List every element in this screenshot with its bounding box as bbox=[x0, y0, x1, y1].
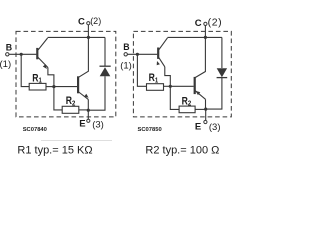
diode D1 (left, cathode up) bbox=[104, 37, 106, 66]
resistor R2 (right) bbox=[179, 106, 195, 113]
wire Q2 emitter to E node (right) bbox=[205, 99, 207, 109]
wire top rail (right) bbox=[168, 36, 222, 38]
svg-text:R2: R2 bbox=[66, 95, 76, 107]
svg-text:R2: R2 bbox=[182, 96, 192, 108]
terminal C (2) left bbox=[87, 25, 89, 38]
wire Q2 base (right) bbox=[170, 85, 193, 87]
terminal B (1) right bbox=[124, 53, 127, 56]
wire Q2 collector (left) bbox=[79, 37, 89, 77]
terminal E (3) right bbox=[205, 109, 207, 120]
terminal E (3) left bbox=[87, 110, 89, 119]
wire Q1 emitter to Q2 base node bbox=[48, 68, 54, 87]
svg-text:(1): (1) bbox=[120, 61, 132, 72]
resistor R2 (left) bbox=[62, 106, 79, 113]
wire B to Q1 base bbox=[9, 53, 36, 55]
svg-text:SC07850: SC07850 bbox=[138, 127, 162, 133]
svg-text:R1: R1 bbox=[32, 72, 42, 84]
node: Q2 base junction dot (right) bbox=[169, 85, 172, 88]
svg-text:(2): (2) bbox=[208, 16, 223, 28]
left schematic dashed box SC07840 bbox=[16, 31, 116, 117]
terminal C (2) right bbox=[204, 26, 206, 38]
wire top rail (left) bbox=[48, 36, 105, 38]
terminal B (1) left bbox=[6, 53, 9, 56]
wire Q2 base bbox=[54, 86, 77, 88]
wire Q2 collector (right) bbox=[195, 37, 205, 77]
svg-text:(3): (3) bbox=[92, 119, 104, 130]
transistor Q2 (left, NPN) bbox=[77, 76, 79, 93]
resistor R1 (left) bbox=[29, 83, 46, 90]
node: E junction dot (left) bbox=[87, 109, 90, 112]
svg-text:B: B bbox=[6, 42, 12, 52]
svg-text:R1: R1 bbox=[149, 72, 159, 84]
svg-text:R1 typ.= 15 KΩ: R1 typ.= 15 KΩ bbox=[17, 144, 92, 156]
svg-text:(2): (2) bbox=[90, 16, 101, 26]
svg-text:B: B bbox=[123, 42, 129, 52]
node: collector junction dot (left) bbox=[87, 36, 90, 39]
svg-text:E: E bbox=[195, 122, 201, 133]
resistor R1 (right) bbox=[147, 84, 164, 91]
svg-text:E: E bbox=[79, 119, 85, 130]
node: Q2 base junction dot (left) bbox=[52, 85, 55, 88]
wire R2 to E node (right) bbox=[195, 108, 206, 110]
node: E junction dot (right) bbox=[204, 108, 207, 111]
wire Q1 emitter to node (right) bbox=[165, 67, 171, 87]
wire R1 drop from B node bbox=[21, 54, 29, 86]
wire Q2 emitter to E node bbox=[87, 99, 89, 110]
svg-text:SC07840: SC07840 bbox=[23, 127, 47, 133]
wire R1 to node (right) bbox=[164, 85, 171, 87]
svg-text:(3): (3) bbox=[209, 122, 221, 133]
wire R1 to node bbox=[46, 86, 54, 88]
node: B junction dot (right) bbox=[136, 53, 139, 56]
diode D2 (right, cathode down) bbox=[221, 37, 223, 68]
wire R2 to E node bbox=[79, 109, 89, 111]
transistor Q2 (right, PNP) bbox=[194, 77, 196, 94]
wire B to Q1 base (right) bbox=[128, 53, 158, 55]
node: B junction dot bbox=[20, 53, 23, 56]
svg-text:C: C bbox=[78, 17, 85, 28]
transistor Q1 (left, NPN) bbox=[36, 48, 38, 59]
svg-text:R2 typ.= 100 Ω: R2 typ.= 100 Ω bbox=[145, 144, 219, 156]
transistor Q1 (right, PNP) bbox=[157, 48, 159, 59]
wire R2 drop (right) bbox=[170, 86, 179, 109]
svg-text:C: C bbox=[195, 18, 202, 29]
faint scan artifact rule bbox=[41, 140, 112, 142]
node: collector junction dot (right) bbox=[204, 36, 207, 39]
wire R2 drop (left) bbox=[54, 87, 62, 110]
right schematic dashed box SC07850 bbox=[133, 31, 231, 117]
wire R1 drop (right) bbox=[137, 54, 146, 86]
svg-text:(1): (1) bbox=[0, 59, 11, 70]
